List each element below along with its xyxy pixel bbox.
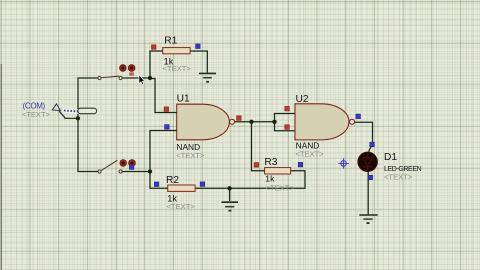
svg-text:R3: R3 — [264, 157, 277, 168]
svg-text:R1: R1 — [164, 36, 177, 47]
switch S2 actuator buttons — [120, 160, 136, 170]
node C junction dot — [249, 120, 253, 124]
node B junction dot — [148, 169, 152, 173]
ground (R1) — [199, 73, 216, 82]
pin square R3 left (red) — [254, 163, 259, 168]
wire: node E down to ground — [229, 188, 231, 201]
pin square U1 output (red) — [237, 116, 242, 121]
wire: left bus vertical — [77, 78, 79, 172]
node E junction dot — [227, 186, 231, 190]
wire: LED cathode to ground — [367, 171, 369, 215]
svg-text:<TEXT>: <TEXT> — [22, 110, 51, 119]
pin square R1 right (blue) — [196, 44, 201, 49]
ghost wire segment (dragged) — [64, 110, 81, 111]
pin square LED bottom (blue) — [368, 175, 373, 180]
resistor R2 — [166, 175, 195, 211]
svg-text:<TEXT>: <TEXT> — [384, 173, 413, 182]
wire: COM terminal to bus junction — [59, 111, 78, 118]
resistor R3 — [264, 157, 294, 192]
wire: node B up to U1 input B — [150, 131, 177, 172]
pin square U2 output (blue) — [356, 114, 361, 119]
terminal COM — [22, 101, 65, 119]
wire: U1 output to node C — [235, 121, 252, 123]
pin square R2 left (blue) — [154, 182, 159, 187]
ground (R2 node E) — [222, 202, 239, 211]
node D junction dot — [272, 120, 276, 124]
wire: R3 right pin loop to node E — [230, 171, 306, 189]
LED D1 — [358, 152, 422, 182]
pin square LED top (blue) — [370, 142, 375, 147]
pin square R1 left (red) — [152, 45, 157, 50]
wire: node A up to R1 left pin — [150, 51, 163, 78]
svg-text:<TEXT>: <TEXT> — [295, 150, 324, 159]
wire: bus top to switch S1 — [77, 77, 97, 79]
svg-text:<TEXT>: <TEXT> — [163, 64, 192, 73]
ground (LED) — [359, 215, 377, 224]
pin square U2 input B (red) — [285, 125, 290, 130]
svg-text:U1: U1 — [177, 94, 190, 105]
node A junction dot — [148, 76, 152, 80]
svg-text:<TEXT>: <TEXT> — [176, 151, 205, 160]
wire: node D to U2 input B — [275, 122, 296, 131]
wire: node D to U2 input A — [275, 114, 296, 122]
pin square R2 right (blue) — [200, 182, 205, 187]
wire: R2 right pin to node E — [195, 187, 230, 189]
svg-text:R2: R2 — [166, 175, 179, 186]
resistor R1 — [163, 36, 192, 74]
wire: R1 right pin to ground — [190, 51, 207, 73]
svg-text:<TEXT>: <TEXT> — [266, 184, 295, 193]
wire: node C down to R3 left pin — [252, 122, 265, 171]
wire: bus bottom to switch S2 — [77, 171, 97, 173]
ghost component outline (rounded rect) — [78, 108, 97, 114]
op-amp U2 NAND gate — [295, 94, 355, 159]
switch S1 (closed) — [98, 76, 122, 79]
pin square U1 input A (red) — [164, 107, 169, 112]
svg-text:D1: D1 — [384, 152, 397, 163]
wire: jog into LED anode — [368, 145, 372, 156]
pin square U1 input B (blue) — [165, 125, 170, 130]
pin square R3 right (blue) — [298, 162, 303, 167]
mouse cursor — [139, 75, 145, 85]
svg-text:<TEXT>: <TEXT> — [167, 202, 196, 211]
op-amp U1 NAND gate — [176, 94, 234, 160]
switch S1 actuator buttons — [120, 65, 135, 76]
node COM junction dot — [76, 116, 80, 120]
wire: node B down to R2 left pin — [150, 172, 168, 189]
pin square U2 input A (red) — [285, 106, 290, 111]
wire: switch S1 to node A — [122, 77, 150, 79]
wire: node C to node D — [252, 121, 275, 123]
wire: switch S2 to node B — [122, 171, 150, 173]
svg-text:U2: U2 — [296, 94, 309, 105]
LED origin marker (blue crosshair) — [338, 158, 348, 168]
switch S2 (open) — [98, 160, 122, 173]
wire: U2 output to LED anode — [355, 122, 373, 145]
svg-text:1k: 1k — [265, 173, 275, 183]
wire: node A down to U1 input A — [150, 79, 177, 113]
